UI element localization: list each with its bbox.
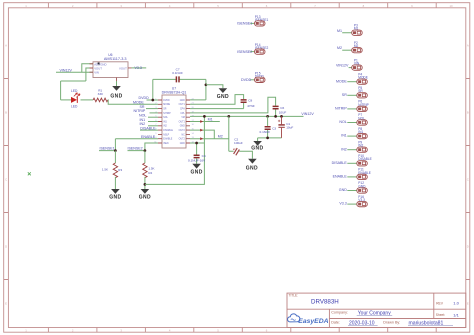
svg-text:NITRIP: NITRIP [335,107,347,111]
svg-text:10: 10 [449,4,453,8]
node NITRIP (P6) [335,107,347,111]
wire IN1 [148,121,158,123]
node M1 [208,118,213,122]
svg-text:ISENSE1: ISENSE1 [237,22,252,26]
svg-text:OUT1: OUT1 [179,104,186,106]
svg-text:GND: GND [190,169,202,175]
LED [71,89,80,108]
node NOL (P7) [339,120,346,124]
svg-text:REV: REV [436,301,444,305]
svg-text:DRV883H: DRV883H [311,298,339,305]
svg-text:100uF: 100uF [234,141,243,145]
svg-text:0.1NUF: 0.1NUF [260,130,271,134]
wire LED to R1 [81,99,94,101]
pin arrow pin15 [200,129,203,132]
junction R4 loop [144,183,147,186]
capacitor C6 10UF [273,106,287,116]
wire SR [146,108,158,110]
wire DVDD to U7 pin1 [147,99,159,101]
svg-text:1.5K: 1.5K [102,167,108,171]
svg-text:ENABLE: ENABLE [163,138,173,141]
svg-text:A: A [5,44,7,48]
wire rail to C3 [267,116,269,137]
svg-text:DVDD: DVDD [241,78,252,82]
svg-text:OUT2: OUT2 [179,139,186,141]
node SR (P5) [342,93,347,97]
svg-text:NOL: NOL [163,117,168,119]
wire U7 pin13 M2 [190,138,229,140]
wire U7 pin19 to C6 [190,97,276,113]
connector P14 ISENSE2 [250,43,268,54]
wire C7 right riser to U7 pin22 [190,79,206,100]
connector P12 GND [347,181,367,193]
node ISENSE1 [100,147,115,151]
node VIN12V (regulator input) [60,69,73,73]
regulator U6 AMS1117-3.3 [90,53,132,81]
svg-text:C3: C3 [272,126,276,130]
ground (R3) [109,189,121,201]
svg-text:Drawn By:: Drawn By: [383,321,400,325]
ground (C3/C1) [251,141,263,151]
wire U6 VOUT [132,67,147,69]
capacitor C7 0.1NUF [153,67,206,82]
svg-text:DISABLE: DISABLE [163,129,173,132]
svg-text:ISENSE2: ISENSE2 [237,50,252,54]
connector P5 SR [347,86,367,98]
svg-text:ISENSE2: ISENSE2 [128,147,143,151]
svg-text:SR: SR [342,93,347,97]
svg-text:330: 330 [98,92,103,96]
svg-text:ENABLE: ENABLE [141,135,156,139]
svg-text:M2: M2 [218,134,223,138]
svg-text:GND: GND [109,195,121,201]
capacitor C3 0.1NUF [260,126,277,133]
wire R3 bottom [114,177,116,189]
svg-text:GND: GND [180,100,185,102]
IC U7 DRV8873H-Q1 [154,86,194,148]
node DVDD (P15) [241,78,252,82]
wire DISABLE [140,129,158,131]
wire U7 pin21 hook to C8 [190,95,244,105]
svg-text:ISENSE1: ISENSE1 [100,147,115,151]
title block [287,293,466,327]
svg-text:VIN: VIN [94,71,99,75]
wire rail to C2 [229,116,253,158]
pin arrow M2 [200,137,203,140]
wire R4 bottom [144,177,146,189]
junction C3 bottom [266,137,269,140]
svg-text:DVDD: DVDD [163,100,170,102]
connector P11 ENABLE [347,168,371,180]
wire LED feed [61,81,86,100]
junction DVDD [151,99,154,102]
node V3.3 [135,66,142,70]
junction rail/C6 [274,115,277,118]
svg-text:GND: GND [180,126,185,128]
svg-text:B: B [467,111,469,115]
node IN1 [140,118,146,122]
svg-text:R3: R3 [118,168,122,172]
wire NITRIP [150,112,159,114]
svg-text:NOL: NOL [339,120,346,124]
connector P9 IN2 [347,140,367,152]
svg-text:VM: VM [181,117,185,119]
svg-text:MODE: MODE [163,104,170,106]
svg-text:NSLP: NSLP [163,134,169,136]
node VIN12V (rail) [301,112,314,116]
ground (top right of U7) [217,88,229,100]
svg-text:AMS1117-3.3: AMS1117-3.3 [104,57,127,61]
ground (U6) [110,86,122,99]
connector P4 MODE [347,72,368,84]
svg-text:1.0: 1.0 [453,301,459,306]
svg-text:VIN12V: VIN12V [60,69,73,73]
pin arrow M1 [200,120,203,123]
node DISABLE (P10) [332,161,348,165]
svg-text:GND: GND [339,188,347,192]
svg-text:0.1NUF: 0.1NUF [172,71,183,75]
svg-text:VOUT: VOUT [119,67,127,71]
connector P1 VIN [349,58,363,70]
svg-text:1.5K: 1.5K [148,166,154,170]
svg-text:E: E [5,302,7,306]
node NITRIP [134,109,146,113]
junction ISENSE2 [144,149,147,152]
node VIN12V (P1) [336,64,349,68]
capacitor C1 10uF (polarized) [278,116,293,137]
svg-text:GND: GND [251,145,263,151]
junction rail/C2 [227,115,230,118]
svg-text:Company:: Company: [331,311,348,315]
junction rail/loop [203,115,206,118]
connector P8 IN1 [347,127,367,139]
svg-text:LED: LED [71,89,78,93]
wire loop R4 to VIN rail [145,116,205,184]
svg-text:D: D [467,245,469,249]
svg-text:C: C [467,178,469,182]
wire ISENSE1 [99,150,115,152]
node IN1 (P8) [341,134,347,138]
svg-text:R4: R4 [148,171,152,175]
node ISENSE2 [128,147,143,151]
wire VIN12V to U6 [56,64,93,81]
svg-text:Date:: Date: [331,321,340,325]
node M1 (P3) [337,29,342,33]
connector P10 DISABLE [347,154,371,166]
wire U7 pin17 M1 [190,121,220,123]
node V3.3 (P16) [339,202,346,206]
svg-text:47NF: 47NF [247,104,255,108]
svg-text:DVDD: DVDD [139,96,150,100]
svg-text:MODE: MODE [336,79,347,83]
capacitor C8 47NF [241,99,255,109]
svg-text:A: A [467,44,469,48]
connector P15 DVDD [250,71,265,82]
node MODE [133,101,144,105]
svg-text:GND: GND [180,143,185,145]
junction C4 tap [195,142,198,145]
svg-text:1/1: 1/1 [453,312,459,317]
svg-text:D: D [5,245,7,249]
svg-text:E: E [467,302,469,306]
svg-text:M1: M1 [337,29,342,33]
wire ENABLE [115,139,158,151]
svg-text:CPL: CPL [180,113,185,115]
svg-text:DRV8873H-Q1: DRV8873H-Q1 [162,91,187,95]
svg-text:Sheet:: Sheet: [436,313,446,317]
resistor R3 1.5K [102,163,123,178]
node DISABLE [140,126,156,130]
EasyEDA logo [288,314,329,325]
wire VIN12V rail [190,115,304,117]
svg-text:NITRIP: NITRIP [163,113,171,115]
capacitor C2 100uF [233,138,243,156]
connector P7 NOL [347,113,367,125]
wire C7 left riser to DVDD [152,79,154,100]
junction C7/GND [205,83,208,86]
svg-text:LED: LED [71,104,78,108]
node GND (P12) [339,188,347,192]
svg-text:OUT1: OUT1 [179,121,186,123]
svg-text:0.1NUF-16V: 0.1NUF-16V [188,158,206,162]
connector P6 NITRIP [347,100,368,112]
svg-text:B: B [5,111,7,115]
svg-text:OUT2: OUT2 [179,130,186,132]
svg-text:M1: M1 [208,118,213,122]
wire U7 pin20 to C8 [190,108,244,110]
svg-text:GND: GND [139,195,151,201]
node ENABLE [141,135,156,139]
node SR [140,105,145,109]
svg-text:V3.3: V3.3 [135,66,142,70]
svg-text:SR: SR [163,109,167,111]
svg-text:DISABLE: DISABLE [332,161,348,165]
connector P2 M2 [342,41,362,53]
ground (C2) [246,159,258,172]
junction rail/C3 [266,115,269,118]
wire NOL [148,116,158,118]
svg-text:NC: NC [181,134,185,136]
junction rail/C1 [280,115,283,118]
svg-text:DISABLE: DISABLE [140,126,156,130]
svg-text:10UF: 10UF [279,111,287,115]
node ENABLE (P11) [333,175,348,179]
svg-text:VIN12V: VIN12V [336,64,349,68]
svg-text:IN2: IN2 [341,147,347,151]
svg-text:M2: M2 [337,46,342,50]
origin marker [28,172,31,175]
svg-text:GND: GND [110,93,122,99]
node M2 (P2) [337,46,342,50]
node IN2 [140,122,146,126]
svg-text:ENABLE: ENABLE [333,175,348,179]
wire R4 top [144,151,146,163]
svg-text:TITLE:: TITLE: [289,294,299,298]
svg-text:IN1: IN1 [341,134,347,138]
wire ISENSE2 step to U7 [145,143,158,151]
node M2 [218,134,223,138]
node ISENSE1 (P13) [237,22,252,26]
wire R1 to MODE pin [108,100,158,104]
svg-text:CPH: CPH [180,109,185,111]
node NOL [139,114,146,118]
node DVDD [139,96,150,100]
connector P13 ISENSE1 [250,15,268,26]
svg-text:10uF: 10uF [286,126,293,130]
wire R3 top [114,151,116,163]
svg-text:GND: GND [217,94,229,100]
wire ISENSE2 [128,150,145,152]
wire to ground (top) [206,85,223,88]
svg-text:GND: GND [246,166,258,172]
junction ISENSE1 [114,149,117,152]
connector P16 V3.3 [347,195,367,207]
svg-text:EasyEDA: EasyEDA [298,318,328,325]
wire C3/C1 bottoms to ground [258,138,282,141]
node MODE (P4) [336,79,347,83]
wire IN2 [148,125,158,127]
svg-text:C: C [5,178,7,182]
svg-text:C8: C8 [248,99,252,103]
wire U7 pin15 step [190,130,214,139]
resistor R1 330 [93,88,108,101]
capacitor C4 0.1NUF-16V [188,154,206,164]
node IN2 (P9) [341,147,347,151]
ground (R4) [139,189,151,201]
wire U6 GND [116,81,118,86]
node ISENSE2 (P14) [237,50,252,54]
connector P3 M1 [342,24,362,36]
svg-text:ISEN: ISEN [163,143,169,145]
svg-text:V3.3: V3.3 [339,202,346,206]
wire U7 pin12 to C4 [190,143,204,155]
resistor R4 1.5K [143,163,155,178]
ground (C4) [190,164,202,176]
svg-text:VIN12V: VIN12V [301,112,314,116]
